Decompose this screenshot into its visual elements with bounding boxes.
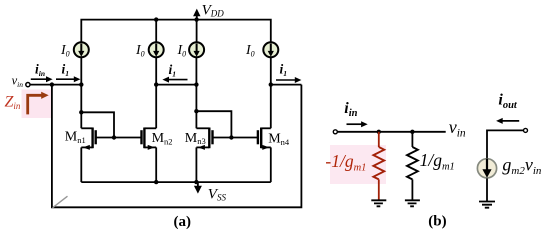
label iin current arrow <box>31 62 53 83</box>
node rail junction at VDD/branch3 <box>194 17 198 21</box>
label Mn4 <box>268 131 290 146</box>
svg-text:iin: iin <box>344 100 357 119</box>
wire branch1 CS1 to drain of Mn1 <box>80 57 82 129</box>
svg-text:I0: I0 <box>245 43 255 58</box>
svg-text:(a): (a) <box>174 214 192 230</box>
svg-text:Zin: Zin <box>5 94 21 112</box>
label Mn2 <box>152 131 173 146</box>
current source I0 branch1 <box>74 42 89 57</box>
node Mn3 drain feedback junction <box>194 109 198 113</box>
wire branch3 CS3 to drain of Mn3 <box>195 57 197 129</box>
wire Mn1 drain-gate feedback <box>81 112 114 137</box>
wire output to dependent source <box>487 130 524 158</box>
transistor Mn4 <box>258 128 271 150</box>
label iin (b) current arrow <box>344 100 367 127</box>
label iout current arrow <box>496 92 519 124</box>
wire drain2-drain3 link <box>156 84 196 86</box>
svg-text:Mn3: Mn3 <box>185 131 206 146</box>
svg-text:iout: iout <box>498 92 518 111</box>
node link junction branch2 <box>154 82 158 86</box>
svg-text:vin: vin <box>449 117 466 140</box>
label -1/gm1 <box>325 151 366 174</box>
label I0 branch3 <box>177 43 187 58</box>
dependent current source gm2vin <box>477 159 496 178</box>
decorative grey slash <box>53 196 68 208</box>
label I0 branch2 <box>135 43 145 58</box>
label VSS <box>208 187 227 203</box>
current source I0 branch3 <box>189 42 204 57</box>
wire Mn4 source down <box>270 147 272 182</box>
wire Mn3 source down <box>195 147 197 182</box>
label i1 current arrow branch1 <box>56 62 80 83</box>
svg-text:Mn4: Mn4 <box>268 131 290 146</box>
wire Mn2 drain up to CS2 <box>155 57 157 129</box>
wire input to branch1 <box>30 84 81 86</box>
current source I0 branch4 <box>263 42 278 57</box>
label i1 current arrow link <box>162 62 187 83</box>
label I0 branch1 <box>60 43 70 58</box>
transistor Mn1 <box>81 128 95 150</box>
resistor -1/gm1 (red) <box>373 132 384 201</box>
label VDD <box>202 2 225 18</box>
svg-text:Mn1: Mn1 <box>65 130 86 145</box>
svg-text:I0: I0 <box>60 43 70 58</box>
node rail junction at branch2 <box>154 17 158 21</box>
wire feedback loop right-bottom-left <box>52 85 302 208</box>
label I0 branch4 <box>245 43 255 58</box>
svg-text:1/gm1: 1/gm1 <box>420 150 455 173</box>
svg-text:I0: I0 <box>135 43 145 58</box>
output terminal iout <box>524 128 528 132</box>
label (b) <box>428 214 446 230</box>
wire Mn4 drain up to CS4 <box>270 57 272 129</box>
wire VDD top rail <box>81 20 270 43</box>
label Mn1 <box>65 130 86 145</box>
wire Mn3 drain-gate feedback <box>196 111 231 137</box>
svg-text:VDD: VDD <box>202 2 225 18</box>
label Mn3 <box>185 131 206 146</box>
svg-text:i1: i1 <box>62 62 70 78</box>
label Zin with highlight and arrow <box>5 90 52 119</box>
wire branch3 rail to CS3 <box>196 20 198 43</box>
svg-text:i1: i1 <box>169 62 177 78</box>
power VSS symbol <box>194 182 202 194</box>
highlight behind negative resistor <box>330 145 386 184</box>
label i1 current arrow output <box>276 62 301 84</box>
label gm2vin <box>502 155 542 178</box>
node Mn4 drain output junction <box>269 82 273 86</box>
resistor 1/gm1 (black) <box>407 132 418 201</box>
ground under -1/gm1 <box>371 200 386 206</box>
label vin <box>12 74 24 89</box>
node gate bus 2 junction <box>229 135 233 139</box>
node resistor junction 2 <box>410 130 414 134</box>
transistor Mn3 <box>196 128 212 150</box>
node Mn1 drain feedback junction <box>79 110 83 114</box>
ground under 1/gm1 <box>405 200 420 206</box>
wire Mn2 source down <box>155 147 157 182</box>
svg-text:VSS: VSS <box>208 187 227 203</box>
svg-text:Mn2: Mn2 <box>152 131 173 146</box>
wire Mn1 source down <box>80 147 82 182</box>
node source rail junction branch3 <box>194 180 198 184</box>
svg-text:i1: i1 <box>280 62 288 78</box>
wire source rail <box>81 181 270 183</box>
node input junction feedback loop <box>50 82 54 86</box>
current source I0 branch2 <box>149 42 164 57</box>
label vin (b) <box>449 117 466 140</box>
label 1/gm1 <box>420 150 455 173</box>
wire Mn4 drain to feedback loop <box>271 84 302 86</box>
wire input node vin (b) <box>337 131 445 133</box>
wire gate bus Mn3-Mn4 <box>213 137 258 139</box>
ground under dependent source <box>479 178 495 207</box>
label (a) <box>174 214 192 230</box>
svg-text:vin: vin <box>12 74 24 89</box>
node link junction branch3 <box>194 82 198 86</box>
transistor Mn2 <box>142 128 157 150</box>
svg-text:(b): (b) <box>428 214 446 230</box>
power VDD symbol <box>193 9 200 20</box>
node resistor junction 1 <box>377 130 381 134</box>
svg-text:I0: I0 <box>177 43 187 58</box>
svg-text:gm2vin: gm2vin <box>502 155 542 178</box>
input terminal vin <box>26 83 30 87</box>
node gate bus 1 junction <box>112 135 116 139</box>
wire gate bus Mn1-Mn2 <box>96 137 142 139</box>
node input junction branch1 <box>79 82 83 86</box>
svg-text:iin: iin <box>35 62 45 78</box>
input terminal iin (b) <box>333 130 337 134</box>
wire branch2 rail to CS2 <box>155 20 157 43</box>
node source rail junction branch2 <box>154 180 158 184</box>
